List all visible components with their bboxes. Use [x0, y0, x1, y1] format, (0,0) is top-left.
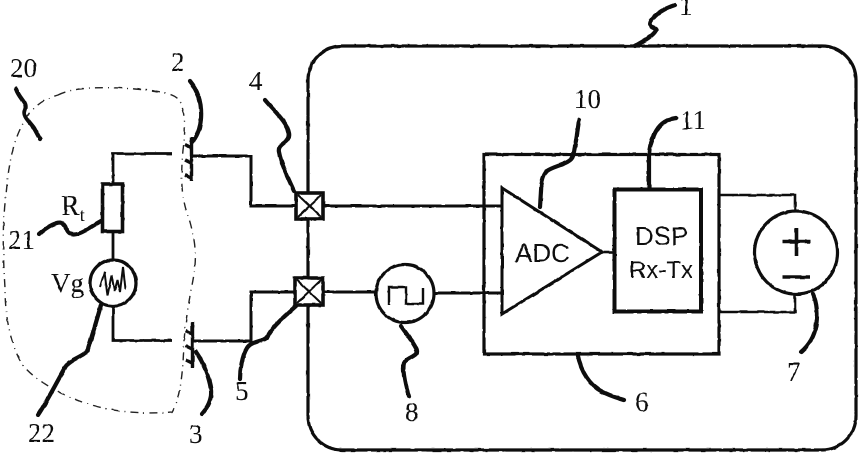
svg-text:22: 22: [28, 418, 55, 448]
svg-text:20: 20: [10, 53, 37, 83]
svg-text:10: 10: [574, 84, 601, 114]
svg-text:ADC: ADC: [515, 238, 570, 268]
svg-text:8: 8: [405, 397, 419, 427]
svg-text:6: 6: [635, 387, 649, 417]
svg-text:Rx-Tx: Rx-Tx: [629, 257, 693, 284]
svg-text:4: 4: [249, 66, 263, 96]
svg-text:DSP: DSP: [635, 221, 688, 251]
svg-text:7: 7: [787, 357, 801, 387]
svg-text:5: 5: [235, 376, 249, 406]
svg-text:21: 21: [8, 225, 35, 255]
svg-text:Rt: Rt: [61, 191, 85, 225]
svg-text:3: 3: [189, 419, 203, 449]
svg-text:11: 11: [680, 105, 706, 135]
svg-text:2: 2: [171, 47, 185, 77]
svg-text:Vg: Vg: [51, 268, 84, 298]
svg-text:1: 1: [679, 0, 693, 21]
